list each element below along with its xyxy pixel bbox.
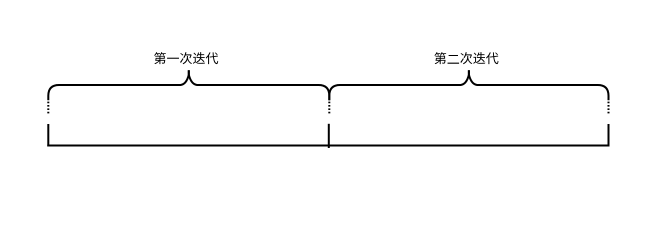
label: 第二次迭代 (second iteration) (434, 52, 498, 64)
tick right (608, 124, 610, 147)
timeline baseline (47, 145, 609, 147)
dotted connector right (608, 102, 610, 114)
dotted connector left (47, 102, 49, 114)
brace 2 (second iteration curly bracket) (329, 70, 608, 100)
tick middle (328, 124, 330, 148)
dotted connector middle (328, 102, 330, 114)
label: 第一次迭代 (first iteration) (154, 52, 218, 64)
tick left (47, 124, 49, 147)
brace 1 (first iteration curly bracket) (48, 70, 329, 100)
